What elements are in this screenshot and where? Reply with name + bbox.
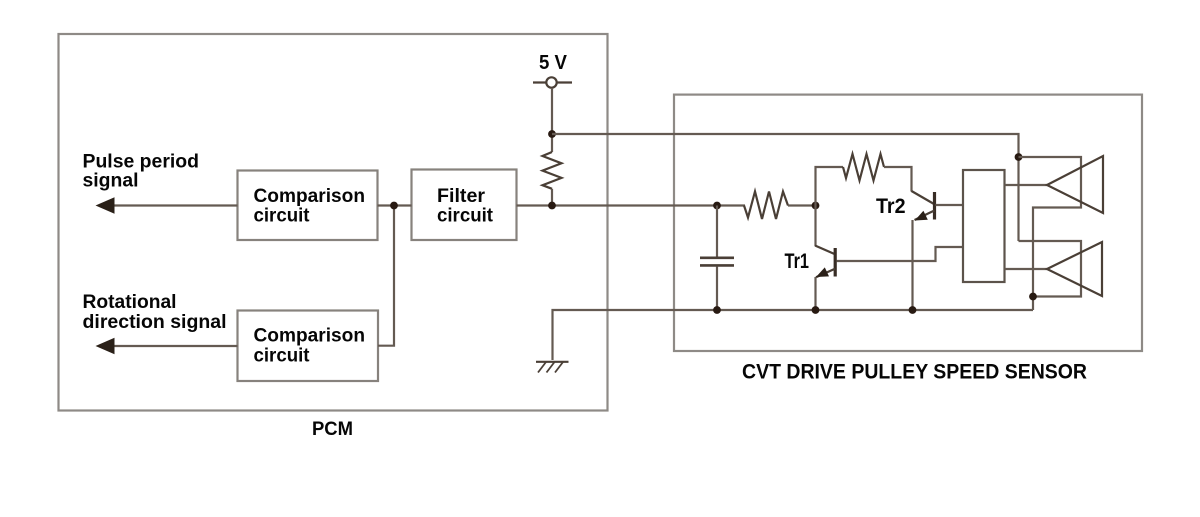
upper MRE element (1047, 156, 1103, 213)
resistor R1 pull-up (543, 152, 562, 189)
wire node A down to U2 (378, 206, 394, 346)
svg-text:PCM: PCM (312, 418, 353, 440)
5 V supply symbol (533, 77, 572, 87)
node H junction dot (812, 202, 820, 210)
wire R2 to node H (788, 204, 816, 206)
label Rotational direction signal (83, 292, 227, 333)
wire node H up to R3 (816, 167, 844, 206)
wire R1 to node C (551, 189, 553, 206)
node G junction dot capacitor bottom (713, 306, 721, 314)
wire Tr1 base to IC (837, 247, 964, 261)
label 5 V (539, 52, 568, 74)
resistor R2 series (744, 192, 788, 220)
node I junction dot (812, 306, 820, 314)
wire node D to upper element (1019, 157, 1082, 310)
transistor Tr1 (815, 246, 835, 278)
label Tr1 (785, 250, 810, 273)
svg-text:circuit: circuit (254, 205, 311, 226)
PCM box (59, 34, 608, 411)
ground symbol (536, 362, 569, 373)
wire Tr2 emitter to bottom rail (911, 220, 913, 310)
label Tr2 (876, 195, 906, 218)
wire filter circuit to sensor resistor R2 (517, 204, 746, 206)
node A junction dot (390, 202, 398, 210)
capacitor C1 (700, 206, 734, 311)
svg-text:circuit: circuit (254, 345, 311, 366)
comparison circuit box U1 (238, 171, 378, 241)
svg-text:5 V: 5 V (539, 52, 568, 74)
ground wire bottom rail (553, 310, 1034, 360)
svg-text:Tr1: Tr1 (785, 250, 810, 273)
sensor box CVT (674, 95, 1142, 351)
lower MRE element (1047, 242, 1102, 296)
node D junction dot (1015, 153, 1023, 161)
transistor Tr2 (912, 191, 935, 221)
IC box U3 (963, 170, 1005, 282)
node J junction dot (909, 306, 917, 314)
wire top rail node B to sensor (552, 134, 1019, 241)
arrow pulse period output (96, 197, 238, 213)
svg-text:direction signal: direction signal (83, 312, 227, 333)
comparison circuit box U2 (238, 311, 379, 382)
svg-text:CVT DRIVE PULLEY SPEED SENSOR: CVT DRIVE PULLEY SPEED SENSOR (742, 359, 1087, 383)
svg-text:signal: signal (83, 170, 139, 191)
wire R3 to Tr2 collector (884, 167, 912, 192)
svg-text:circuit: circuit (437, 205, 494, 226)
wire Tr2 base to IC (936, 204, 964, 206)
wire U1 to filter circuit (378, 204, 412, 206)
label PCM (312, 418, 353, 440)
wire 5V to node B (551, 88, 553, 152)
label CVT DRIVE PULLEY SPEED SENSOR (742, 359, 1087, 383)
node E junction dot (1029, 293, 1037, 301)
wire lower Z to lower element (1019, 241, 1082, 297)
resistor R3 feedback (843, 154, 884, 181)
svg-text:Comparison: Comparison (254, 325, 366, 346)
svg-text:Filter: Filter (437, 186, 486, 207)
wire Tr1 emitter to bottom rail (814, 277, 816, 310)
wire IC to lower element apex (1005, 268, 1048, 270)
node F junction dot capacitor top (713, 202, 721, 210)
node C junction dot (548, 202, 556, 210)
svg-text:Rotational: Rotational (83, 292, 177, 313)
filter circuit box (412, 170, 517, 241)
svg-text:Pulse period: Pulse period (83, 151, 200, 172)
svg-text:Comparison: Comparison (254, 186, 366, 207)
svg-text:Tr2: Tr2 (876, 195, 906, 218)
wire node H down to Tr1 collector (814, 206, 816, 247)
label Pulse period signal (83, 151, 200, 191)
arrow rotational direction output (96, 338, 238, 354)
wire IC to upper element apex (1005, 184, 1048, 186)
node B junction dot (548, 130, 556, 138)
